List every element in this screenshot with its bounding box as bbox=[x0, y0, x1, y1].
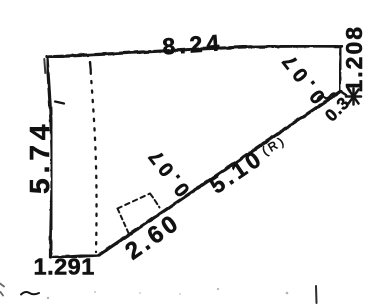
parcel boundary: top edge bbox=[47, 46, 341, 57]
dashed encroachment rectangle: left side bbox=[118, 209, 129, 234]
svg-text:5.10: 5.10 bbox=[205, 144, 268, 198]
svg-text:0.07: 0.07 bbox=[142, 142, 194, 200]
tick on left edge bbox=[55, 102, 64, 104]
stray mark: squiggle bottom left bbox=[21, 292, 39, 294]
svg-text:1.291: 1.291 bbox=[34, 254, 95, 280]
stray mark: left border bbox=[0, 284, 4, 296]
dashed encroachment rectangle: right side bbox=[150, 194, 160, 208]
parcel boundary: bottom edge bbox=[51, 255, 100, 258]
star mark bbox=[346, 89, 361, 105]
dashed survey line: first dash bbox=[89, 63, 92, 71]
dashed encroachment rectangle: top side bbox=[118, 194, 151, 209]
parcel boundary: right edge bbox=[339, 46, 341, 91]
parcel boundary: diagonal edge bbox=[99, 91, 341, 255]
svg-text:8.24: 8.24 bbox=[162, 29, 224, 59]
corner stub at right corner bbox=[340, 91, 346, 95]
svg-text:(R): (R) bbox=[260, 133, 289, 158]
svg-text:1.208: 1.208 bbox=[341, 25, 367, 93]
wavy stroke on diagonal near corner bbox=[318, 93, 337, 98]
svg-text:0.07: 0.07 bbox=[275, 46, 330, 108]
doubled stroke at top-left corner bbox=[44, 59, 45, 73]
dashed survey line (vertical) bbox=[90, 62, 97, 252]
svg-text:5.74: 5.74 bbox=[24, 120, 55, 195]
stray mark: vertical tick bottom right bbox=[315, 286, 318, 303]
stray faint dots bbox=[47, 288, 289, 299]
parcel boundary: left edge bbox=[47, 58, 52, 258]
